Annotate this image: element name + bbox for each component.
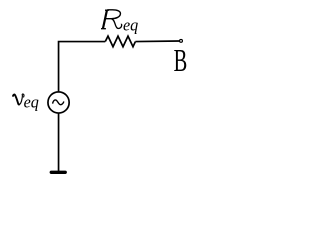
svg-text:eq: eq xyxy=(123,15,138,34)
svg-text:B: B xyxy=(174,43,188,79)
svg-text:eq: eq xyxy=(24,92,39,111)
